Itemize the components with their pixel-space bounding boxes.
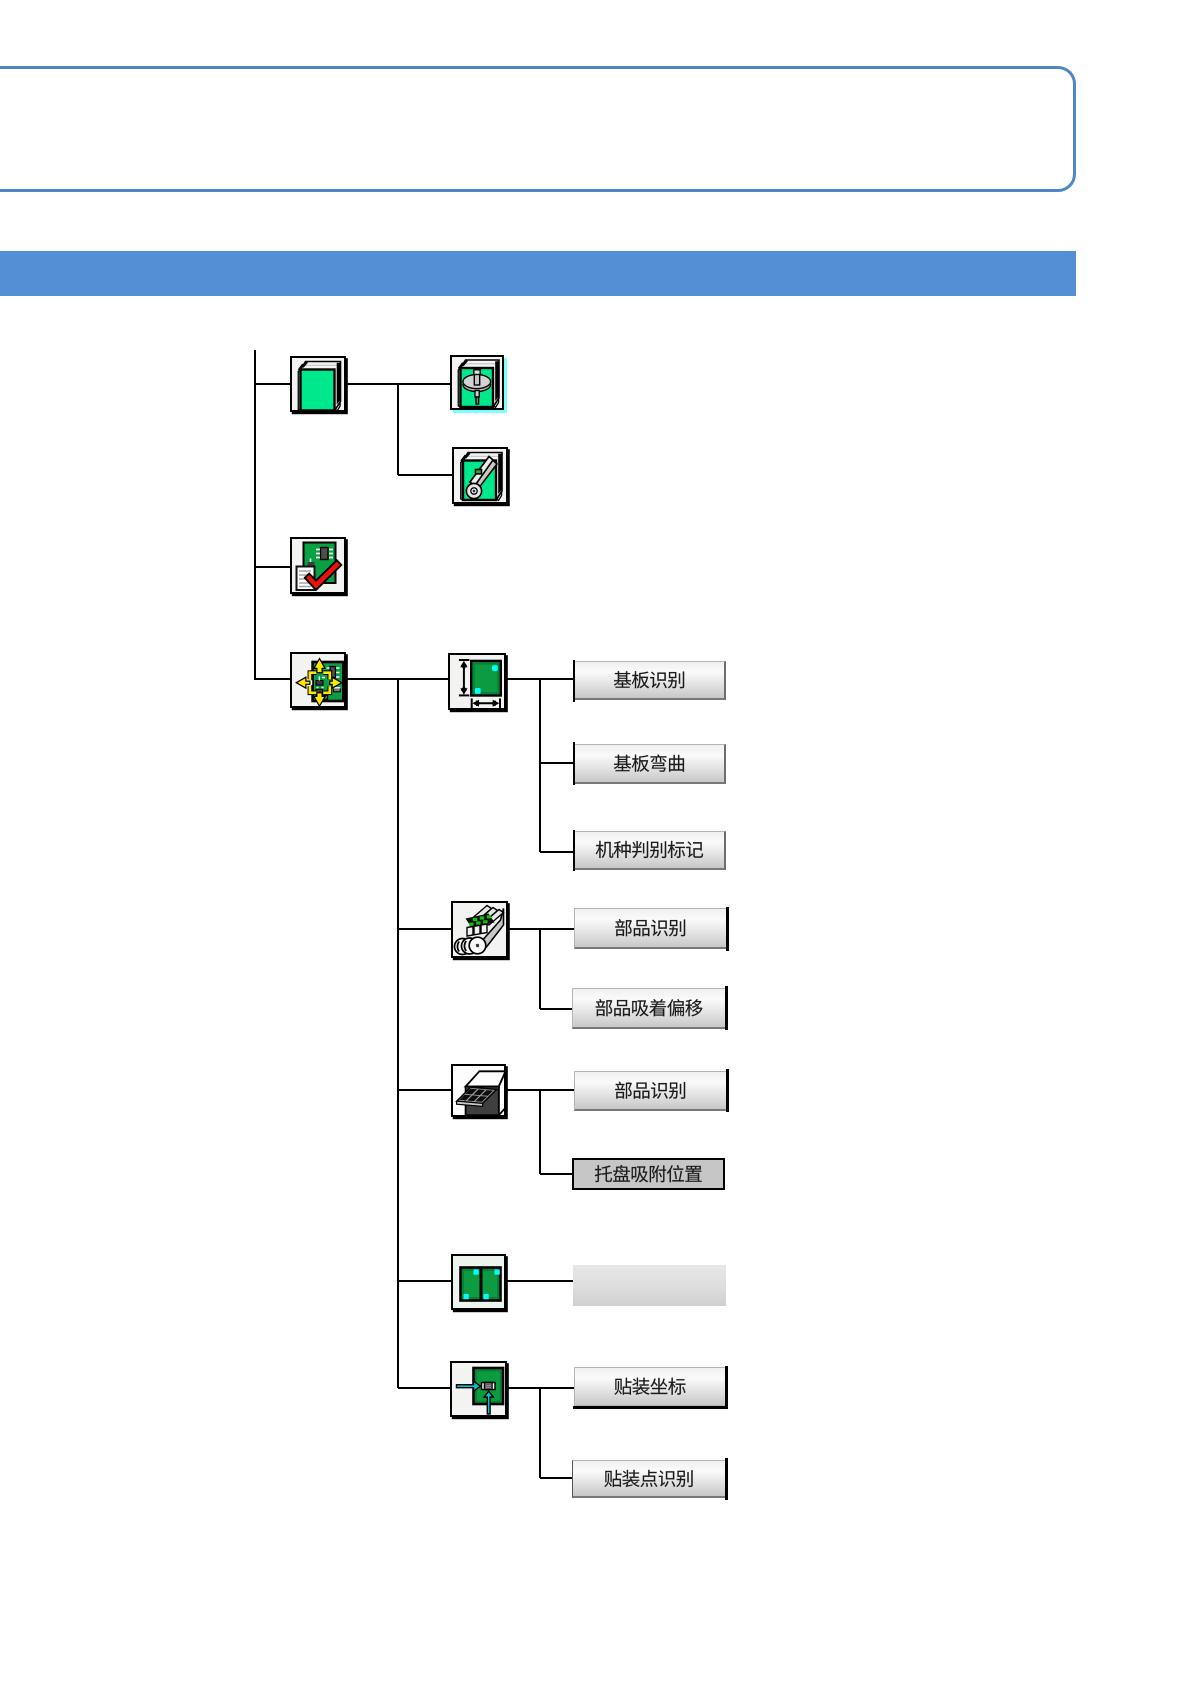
wire <box>506 678 540 680</box>
wire <box>540 1387 574 1389</box>
wire <box>539 1388 541 1479</box>
icon placement point <box>450 1361 507 1418</box>
wire <box>507 1387 540 1389</box>
wire <box>397 384 399 476</box>
wire <box>539 679 541 852</box>
wire <box>540 851 573 853</box>
wire <box>398 928 451 930</box>
icon tape feeder <box>451 901 508 958</box>
wire <box>255 678 291 680</box>
wire <box>255 383 291 385</box>
label box 贴装点识别 <box>572 1460 726 1499</box>
icon nozzle data (selected) <box>450 355 504 410</box>
label box 贴装坐标 <box>574 1367 726 1406</box>
label box 机种判别标记 <box>574 831 726 870</box>
wire <box>540 1089 574 1091</box>
wire <box>397 679 399 1388</box>
wire <box>506 1280 573 1282</box>
label box 部品吸着偏移 <box>572 988 726 1029</box>
wire <box>540 1477 572 1479</box>
wire <box>398 1280 451 1282</box>
wire <box>540 1173 572 1175</box>
wire <box>345 383 450 385</box>
rounded title frame <box>0 66 1076 192</box>
icon board size <box>448 653 506 710</box>
icon feeder data <box>452 447 509 504</box>
blue heading bar <box>0 251 1076 296</box>
label box 基板弯曲 <box>574 744 726 784</box>
wire <box>255 566 291 568</box>
wire <box>507 928 540 930</box>
wire <box>254 350 256 680</box>
wire <box>398 1089 451 1091</box>
empty label box <box>573 1265 726 1306</box>
wire <box>345 678 448 680</box>
icon program book <box>290 356 346 412</box>
wire <box>539 929 541 1009</box>
label box 托盘吸附位置 <box>572 1158 725 1190</box>
wire <box>506 1089 540 1091</box>
wire <box>398 474 452 476</box>
wire <box>540 928 574 930</box>
icon tray feeder <box>451 1064 506 1118</box>
wire <box>398 1387 450 1389</box>
icon board split <box>451 1254 506 1311</box>
label box 部品识别 (2) <box>574 1071 727 1111</box>
icon board check <box>290 537 346 594</box>
label box 部品识别 (1) <box>574 908 727 949</box>
label box 基板识别 <box>574 661 726 700</box>
wire <box>540 762 573 764</box>
icon placement data <box>290 652 346 708</box>
wire <box>540 678 573 680</box>
wire <box>539 1090 541 1174</box>
wire <box>540 1008 572 1010</box>
